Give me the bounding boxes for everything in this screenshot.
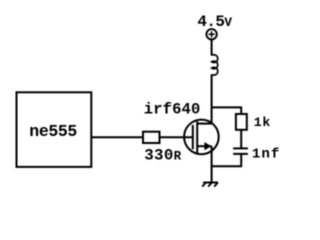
wire R2 to C1 — [240, 130, 242, 149]
plus sign — [209, 31, 215, 37]
inductor L1 — [212, 55, 218, 75]
wire Q1 source to ground — [211, 146, 213, 181]
wire ne555 output to R1 — [91, 136, 143, 138]
resistor R1 330R — [143, 132, 160, 143]
svg-text:irf640: irf640 — [144, 100, 201, 118]
wire inductor to supply — [211, 39, 213, 55]
Q1 channel bar — [196, 121, 198, 153]
Q1 source lead — [197, 145, 211, 147]
svg-text:ne555: ne555 — [29, 122, 77, 141]
wire R1 to Q1 gate — [160, 136, 193, 138]
wire Q1 drain to inductor — [211, 74, 213, 123]
wire drain node to R2 branch — [212, 106, 242, 108]
Q1 gate bar — [192, 125, 194, 149]
wire branch down to R2 — [240, 107, 242, 115]
svg-text:330R: 330R — [144, 147, 181, 165]
Q1 drain lead — [197, 123, 211, 125]
power source V1 4.5V circle — [206, 29, 216, 39]
Q1 source arrow — [204, 142, 211, 150]
svg-text:1nf: 1nf — [252, 147, 280, 163]
ground — [202, 183, 218, 187]
transistor Q1 irf640 body circle — [184, 120, 219, 155]
resistor R2 1k — [236, 114, 247, 130]
capacitor C1 top plate — [233, 147, 248, 149]
capacitor C1 bottom plate — [233, 153, 248, 155]
IC U1 ne555 box — [17, 92, 92, 167]
wire C1 bottom to source node — [212, 154, 242, 166]
svg-text:1k: 1k — [254, 115, 271, 130]
svg-text:4.5V: 4.5V — [197, 13, 232, 31]
